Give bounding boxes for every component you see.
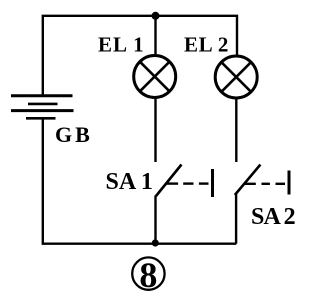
svg-text:SA 1: SA 1: [106, 169, 153, 195]
svg-text:8: 8: [139, 255, 157, 295]
svg-text:EL 2: EL 2: [184, 33, 229, 57]
svg-text:EL 1: EL 1: [98, 33, 145, 57]
svg-text:GB: GB: [55, 122, 93, 147]
svg-text:SA 2: SA 2: [251, 204, 295, 230]
